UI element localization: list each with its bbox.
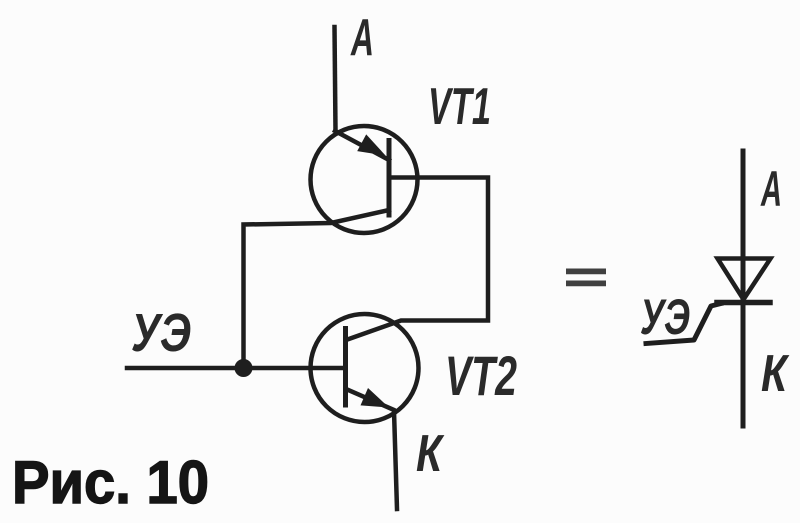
svg-text:Рис. 10: Рис. 10 — [12, 449, 209, 516]
svg-text:УЭ: УЭ — [640, 289, 690, 345]
svg-text:A: A — [760, 161, 782, 217]
svg-text:К: К — [761, 345, 789, 403]
svg-text:УЭ: УЭ — [131, 303, 191, 363]
svg-text:К: К — [416, 425, 444, 483]
svg-text:VT1: VT1 — [428, 78, 491, 136]
svg-text:VT2: VT2 — [445, 344, 517, 407]
svg-text:A: A — [350, 9, 374, 67]
